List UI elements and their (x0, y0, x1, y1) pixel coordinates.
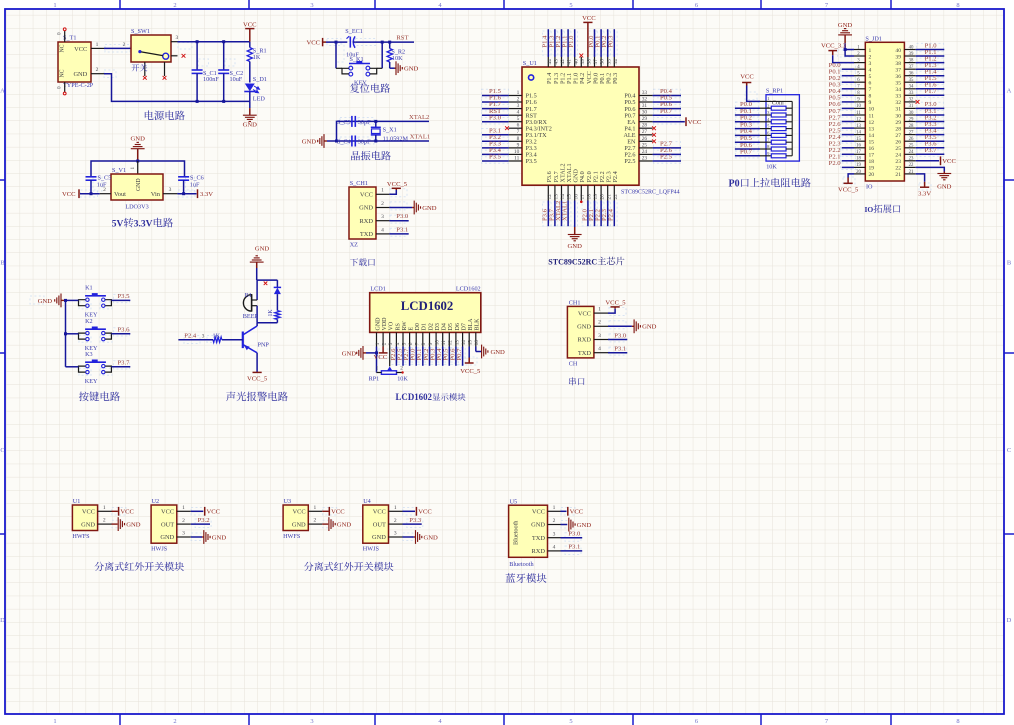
wire U1 EA pin to VCC (653, 121, 685, 123)
svg-text:GND: GND (642, 324, 657, 331)
caption 串口 (569, 377, 585, 385)
LED S_D1 (244, 76, 267, 103)
svg-text:27: 27 (909, 130, 914, 135)
svg-text:1uF: 1uF (190, 181, 200, 188)
svg-text:22: 22 (909, 163, 914, 168)
power port 3.3V (JD1 pin21) (918, 182, 931, 198)
svg-text:9: 9 (869, 100, 872, 106)
svg-text:VDD: VDD (382, 317, 388, 331)
svg-text:S_CH1: S_CH1 (350, 180, 368, 187)
wire JD1 right pin 24 (916, 153, 945, 155)
svg-text:GND: GND (337, 521, 352, 528)
svg-text:S_SW1: S_SW1 (131, 28, 150, 35)
svg-text:GND: GND (136, 178, 142, 191)
svg-text:29: 29 (895, 120, 901, 126)
junction C5 (90, 192, 93, 195)
svg-text:5: 5 (569, 2, 572, 9)
svg-text:2: 2 (517, 97, 520, 103)
svg-text:VCC: VCC (62, 191, 76, 198)
wire JD1 top gnd to pins 1,2 (845, 43, 854, 56)
svg-text:1: 1 (517, 90, 520, 96)
wire LCD pin5 (402, 347, 404, 366)
module U3 HWFS (283, 498, 322, 540)
svg-text:23: 23 (909, 157, 914, 162)
svg-text:C: C (0, 447, 4, 454)
wire keys ground rail (65, 300, 67, 366)
capacitor S_C1 100nF (192, 42, 220, 102)
wire LCD pin14 (462, 347, 464, 366)
svg-text:TYPE-C-2P: TYPE-C-2P (63, 82, 94, 89)
svg-text:14: 14 (869, 133, 875, 139)
wire U1 right pin 32 (653, 101, 681, 103)
wire U1 GND pin16 (574, 201, 576, 228)
svg-text:P3.6: P3.6 (118, 327, 131, 334)
svg-text:31: 31 (642, 103, 648, 109)
power port VCC (RP1) (740, 73, 754, 85)
svg-text:27: 27 (642, 129, 648, 135)
svg-text:30: 30 (642, 110, 648, 116)
caption 晶振电路 (351, 151, 391, 160)
wire JD1 right pin 39 (916, 55, 945, 57)
junction crystal rails (335, 140, 338, 143)
svg-text:E: E (409, 327, 415, 331)
svg-text:VCC: VCC (570, 509, 584, 516)
power port VCC (U5) (568, 507, 584, 516)
wire LCD pin13 (455, 347, 457, 366)
svg-text:20: 20 (600, 194, 606, 200)
svg-text:TXD: TXD (578, 350, 592, 357)
svg-text:1: 1 (381, 188, 384, 194)
svg-text:OUT: OUT (373, 521, 386, 528)
svg-text:19: 19 (593, 194, 599, 200)
svg-text:GND: GND (568, 243, 583, 250)
svg-text:18: 18 (856, 157, 861, 162)
svg-text:11: 11 (856, 111, 861, 116)
svg-text:U4: U4 (363, 498, 371, 505)
wire JD1 left pin 19 (842, 166, 854, 168)
svg-text:1: 1 (96, 42, 99, 48)
ground GND (serial) (632, 319, 657, 333)
svg-text:VCC: VCC (306, 40, 320, 47)
wire XTAL1 bottom rail (327, 140, 429, 142)
svg-text:10: 10 (435, 340, 441, 346)
wire LCD BLA to VCC_5 (468, 347, 470, 358)
svg-text:D4: D4 (442, 323, 448, 330)
svg-text:1: 1 (103, 505, 106, 511)
svg-text:P0.7: P0.7 (740, 149, 753, 156)
svg-text:C: C (1007, 447, 1011, 454)
wire JD1 right pin 37 (916, 68, 945, 70)
svg-text:TXD: TXD (532, 535, 546, 542)
svg-text:3.3V: 3.3V (134, 220, 153, 230)
svg-text:HWFS: HWFS (283, 533, 301, 540)
svg-text:XTAL2: XTAL2 (409, 114, 429, 121)
junction key right drop (381, 41, 384, 44)
wire LCD pin9 (429, 347, 431, 366)
svg-text:4: 4 (395, 342, 401, 345)
svg-text:P3.1: P3.1 (614, 346, 626, 353)
svg-text:30pF: 30pF (358, 138, 371, 145)
connector CH1 (serial port) (567, 300, 608, 368)
svg-text:P1.7: P1.7 (925, 88, 938, 95)
junction C6 (182, 192, 185, 195)
svg-text:D6: D6 (455, 323, 461, 330)
wire JD1 right pin 31 (916, 107, 945, 109)
svg-text:D3: D3 (435, 323, 441, 330)
wire U1 top pin 44 (547, 29, 549, 57)
svg-text:RXD: RXD (578, 337, 592, 344)
wire U1 bottom pin 14 (561, 201, 563, 227)
no-connect marker T1 bottom pin (63, 92, 66, 95)
svg-text:VCC: VCC (688, 119, 702, 126)
no-connect marker T1 top pin (63, 28, 66, 31)
svg-text:S_C3: S_C3 (337, 119, 351, 126)
power port 3.3V (LDO input) (198, 189, 214, 198)
diode D (flyback) with resistor 1K branch (268, 280, 281, 323)
svg-text:GND: GND (424, 534, 439, 541)
svg-text:39: 39 (580, 59, 586, 65)
power port VCC_3.3 (JD1) (821, 43, 847, 56)
svg-text:BEEP: BEEP (243, 313, 259, 320)
svg-text:11.0592M: 11.0592M (383, 135, 409, 142)
svg-text:38: 38 (587, 59, 593, 65)
no-connect marker (alarm diode) (264, 282, 268, 286)
svg-text:2: 2 (394, 518, 397, 524)
svg-text:28: 28 (895, 126, 901, 132)
svg-text:P1.0: P1.0 (568, 35, 575, 48)
svg-text:2: 2 (103, 518, 106, 524)
crystal S_X1 11.0592M (371, 121, 409, 142)
svg-text:P3.1: P3.1 (396, 226, 408, 233)
power port VCC (LDO output) (62, 189, 79, 198)
svg-text:23: 23 (895, 159, 901, 165)
svg-text:U1: U1 (73, 498, 81, 505)
wire JD1 right pin 35 (916, 81, 945, 83)
wire U1 right pin 33 (653, 95, 681, 97)
svg-text:23: 23 (642, 155, 648, 161)
wire VCC to RP1 common (747, 86, 760, 102)
wire JD1 left pin 9 (842, 101, 854, 103)
svg-text:Bluetooth: Bluetooth (509, 561, 534, 568)
svg-text:VO: VO (389, 321, 395, 330)
capacitor S_EC1 10uF electrolytic (345, 28, 363, 58)
switch S_SW1 (131, 28, 179, 76)
label 开关 for SW1 (132, 64, 148, 72)
svg-text:3.3V: 3.3V (918, 190, 931, 197)
wire LCD pin10 (435, 347, 437, 366)
wire LCD pin8 (422, 347, 424, 366)
wire U1 bottom pin 22 (613, 201, 615, 227)
svg-text:4: 4 (381, 227, 384, 233)
svg-text:VCC_5: VCC_5 (387, 181, 408, 188)
svg-text:38: 38 (909, 58, 914, 63)
svg-text:35: 35 (895, 81, 901, 87)
svg-text:P3.7: P3.7 (925, 147, 938, 154)
wire JD1 left pin 8 (842, 94, 854, 96)
compile mask highlights (30, 31, 944, 555)
svg-text:8: 8 (421, 342, 427, 345)
svg-text:18: 18 (869, 159, 875, 165)
svg-text:1uF: 1uF (97, 181, 107, 188)
svg-text:RST: RST (396, 35, 408, 42)
svg-text:P0.3: P0.3 (608, 35, 615, 48)
power port VCC (LCD VDD) (374, 347, 388, 361)
svg-text:GND: GND (531, 522, 545, 529)
svg-text:24: 24 (642, 149, 648, 155)
power port VCC (JD1 pin23) (941, 156, 957, 165)
wire alarm top node (257, 268, 278, 280)
ground GND (U5) (569, 518, 592, 532)
svg-text:32: 32 (642, 97, 648, 103)
wire Vout to VCC (80, 193, 100, 195)
wire JD1 left pin 16 (842, 147, 854, 149)
svg-text:33: 33 (642, 90, 648, 96)
svg-text:41: 41 (567, 59, 573, 65)
svg-text:21: 21 (909, 170, 914, 175)
svg-text:LDO3V3: LDO3V3 (125, 203, 148, 210)
capacitor S_C3 30pF (337, 116, 371, 127)
wire JD1 left pin 18 (842, 160, 854, 162)
svg-text:D0: D0 (415, 323, 421, 330)
svg-text:12: 12 (869, 120, 875, 126)
svg-text:18: 18 (587, 194, 593, 200)
wire U1 right pin 30 (653, 114, 681, 116)
svg-text:30pF: 30pF (358, 119, 371, 126)
svg-text:GND: GND (212, 534, 227, 541)
ground GND (JD1 pin22) (937, 172, 952, 191)
wire CH1 pin1 to VCC_5 (389, 190, 396, 194)
svg-text:3.3V: 3.3V (200, 191, 213, 198)
svg-text:3: 3 (869, 61, 872, 67)
svg-text:VCC: VCC (532, 509, 545, 516)
ground GND (U1) (568, 227, 583, 250)
svg-text:LCD1: LCD1 (370, 286, 385, 293)
svg-text:U2: U2 (152, 498, 160, 505)
capacitor S_C4 30pF (337, 136, 371, 147)
display LCD1 LCD1602 (370, 286, 481, 347)
svg-text:15: 15 (869, 140, 875, 146)
power port VCC_5 (download) (387, 181, 408, 190)
wire U1 left pin 1 (482, 95, 509, 97)
junction LDO GND pin (136, 160, 139, 163)
svg-text:PNP: PNP (258, 341, 270, 348)
svg-text:36: 36 (895, 74, 901, 80)
svg-text:7: 7 (517, 129, 520, 135)
svg-text:STC89C52RC_LQFP44: STC89C52RC_LQFP44 (621, 189, 680, 195)
no-connect marker U1 pin39 (579, 54, 583, 58)
svg-text:D: D (0, 617, 5, 624)
svg-text:GND: GND (126, 521, 141, 528)
svg-text:P2.4: P2.4 (612, 171, 619, 182)
svg-text:33: 33 (909, 91, 914, 96)
svg-text:VCC: VCC (120, 509, 134, 516)
svg-text:1: 1 (314, 505, 317, 511)
svg-text:P2.4: P2.4 (184, 332, 197, 339)
wire JD1 right pin 40 (916, 49, 945, 51)
svg-text:42: 42 (560, 59, 566, 65)
svg-text:4: 4 (517, 110, 520, 116)
svg-text:14: 14 (856, 130, 861, 135)
svg-text:VCC_5: VCC_5 (460, 368, 481, 375)
wire XTAL2 top rail (337, 121, 430, 141)
svg-text:39: 39 (909, 52, 914, 57)
resistor 1K (base) with wire to P2.4 (178, 332, 242, 342)
svg-text:D5: D5 (448, 323, 454, 330)
svg-text:8: 8 (517, 136, 520, 142)
svg-text:3: 3 (310, 718, 313, 725)
svg-text:33: 33 (895, 94, 901, 100)
svg-text:B1: B1 (245, 292, 252, 299)
svg-text:22: 22 (613, 194, 619, 200)
wire JD1 left pin 10 (842, 107, 854, 109)
wire LCD BLK to GND (476, 347, 482, 352)
svg-text:2: 2 (381, 201, 384, 207)
svg-text:A: A (1007, 88, 1012, 95)
svg-text:Bluetooth: Bluetooth (513, 520, 520, 545)
svg-text:S_RP1: S_RP1 (766, 88, 783, 95)
svg-text:15: 15 (468, 340, 474, 346)
svg-text:1K: 1K (253, 54, 261, 61)
wire U1 top pin 35 (607, 29, 609, 57)
svg-text:VCC: VCC (293, 509, 306, 516)
svg-text:P3.2: P3.2 (198, 517, 210, 524)
wire U5 pin2 to GND (561, 524, 568, 526)
svg-text:U3: U3 (284, 498, 292, 505)
junction crystal bottom (374, 140, 377, 143)
svg-text:7: 7 (415, 342, 421, 345)
svg-text:10K: 10K (392, 55, 403, 62)
svg-text:VCC: VCC (161, 509, 174, 516)
svg-text:U5: U5 (510, 498, 518, 505)
push button K1 KEY (79, 285, 112, 319)
svg-text:VCC: VCC (374, 354, 388, 361)
svg-text:KEY: KEY (85, 378, 98, 385)
no-connect marker U1 right pin 26 (652, 139, 656, 143)
power port VCC (EA pin) (686, 117, 702, 126)
module U5 Bluetooth (509, 498, 561, 568)
svg-text:24: 24 (895, 153, 901, 159)
svg-text:P0: P0 (729, 179, 740, 190)
svg-text:31: 31 (895, 107, 901, 113)
svg-text:D: D (1007, 617, 1012, 624)
svg-text:B: B (0, 260, 5, 267)
svg-text:40: 40 (895, 48, 901, 54)
push button K2 KEY (79, 318, 112, 352)
wire CH1 serial pin3 P3.0 (608, 339, 627, 341)
resistor pack S_RP1 10K (760, 88, 799, 171)
ground GND (crystal) (302, 134, 327, 148)
svg-text:5: 5 (401, 342, 407, 345)
svg-text:D7: D7 (462, 323, 468, 330)
caption LCD1602显示模块 (396, 392, 466, 402)
wire U5 TXD to P3.0 (561, 537, 583, 539)
svg-text:24: 24 (909, 150, 914, 155)
svg-text:GND: GND (255, 245, 270, 252)
junction key rail K2 (64, 332, 67, 335)
svg-text:2: 2 (598, 320, 601, 326)
svg-text:13: 13 (869, 126, 875, 132)
connector S_CH1 XZ (download port) (349, 180, 389, 249)
svg-text:16: 16 (856, 144, 861, 149)
svg-text:Vout: Vout (114, 191, 126, 198)
svg-text:2: 2 (382, 342, 388, 345)
svg-text:VCC: VCC (582, 15, 596, 22)
caption IO拓展口 (865, 204, 901, 214)
svg-text:RXD: RXD (532, 548, 546, 555)
svg-text:11: 11 (869, 113, 875, 119)
svg-text:5: 5 (569, 718, 572, 725)
module U1 HWFS (72, 498, 111, 540)
svg-text:9: 9 (428, 342, 434, 345)
svg-text:13: 13 (856, 124, 861, 129)
svg-text:8: 8 (869, 94, 872, 100)
wire U1 left pin 5 (482, 121, 509, 123)
wire T1 GND to bottom rail (104, 74, 250, 102)
ground GND (download) (412, 201, 437, 215)
svg-text:VCC_5: VCC_5 (838, 187, 859, 194)
power port VCC (U1) (112, 507, 135, 516)
wire JD1 left pin 13 (842, 127, 854, 129)
wire LCD pin7 (415, 347, 417, 366)
wire reset right branch (381, 42, 383, 68)
svg-text:4: 4 (553, 545, 556, 551)
svg-text:3: 3 (517, 103, 520, 109)
svg-text:1K: 1K (268, 309, 274, 317)
svg-text:14: 14 (461, 340, 467, 346)
svg-text:17: 17 (856, 150, 861, 155)
push button S_K1 KEY (336, 56, 382, 87)
svg-text:30: 30 (909, 111, 914, 116)
svg-text:K1: K1 (85, 285, 93, 292)
svg-text:3: 3 (176, 35, 179, 41)
svg-text:P3.5: P3.5 (526, 158, 537, 165)
svg-text:2: 2 (553, 518, 556, 524)
wire JD1 right pin 29 (916, 121, 945, 123)
svg-text:26: 26 (909, 137, 914, 142)
svg-text:10K: 10K (397, 375, 408, 382)
wire JD1 left pin 6 (842, 81, 854, 83)
junction at C1 bottom (196, 100, 199, 103)
svg-text:HWFS: HWFS (72, 533, 90, 540)
wire JD1 right pin 38 (916, 62, 945, 64)
svg-text:1: 1 (182, 505, 185, 511)
svg-text:VCC: VCC (740, 73, 754, 80)
wire U1 left pin 11 (482, 160, 509, 162)
svg-text:16: 16 (474, 340, 480, 346)
svg-text:GND: GND (160, 534, 174, 541)
svg-text:10K: 10K (766, 163, 777, 170)
svg-text:2: 2 (173, 2, 176, 9)
svg-text:P2.5: P2.5 (624, 158, 635, 165)
wire U1 left pin 8 (482, 140, 509, 142)
power port VCC (U1 top) (582, 15, 596, 23)
svg-text:CH: CH (569, 360, 578, 367)
no-connect marker RP1 pin2 (401, 371, 403, 373)
module U2 HWJS (151, 498, 191, 553)
svg-text:NC: NC (60, 44, 66, 52)
svg-text:26: 26 (642, 136, 648, 142)
wire U1 top pin 40 (574, 29, 576, 57)
svg-text:GND: GND (359, 205, 373, 212)
wire U4 pin3 to GND (403, 536, 414, 538)
svg-text:1: 1 (130, 167, 136, 170)
svg-text:D2: D2 (428, 323, 434, 330)
svg-text:4: 4 (869, 68, 872, 74)
ground GND (U3) (322, 517, 351, 531)
wire U1 bottom pin 13 (554, 201, 556, 227)
wire U2 pin1 to VCC (191, 510, 204, 512)
svg-text:10uF: 10uF (230, 76, 243, 83)
